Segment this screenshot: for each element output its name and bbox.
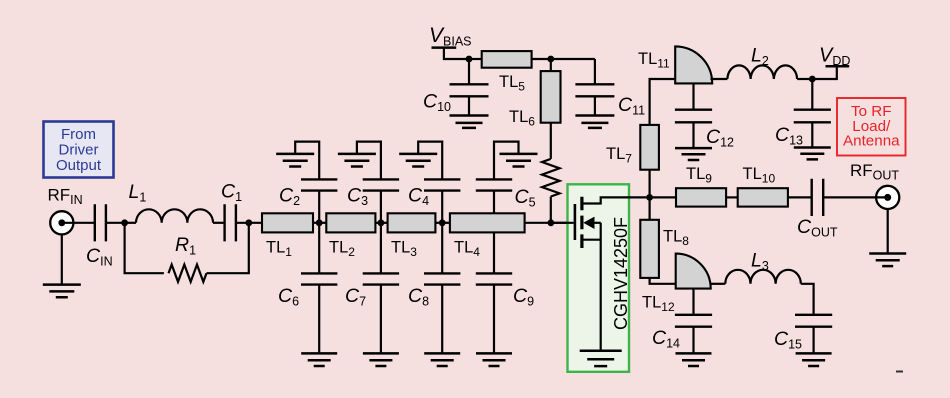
resistor R1 — [169, 265, 207, 282]
transmission line TL4 — [450, 213, 525, 232]
node I (drain node) — [646, 194, 653, 201]
wire C12 to ground — [692, 122, 694, 148]
svg-text:FromDriverOutput: FromDriverOutput — [56, 126, 102, 174]
transmission line TL2 — [326, 213, 375, 232]
ground of Q1 source — [580, 351, 622, 366]
connector RF_IN centre pin — [58, 219, 65, 226]
wire C15 to ground — [812, 327, 814, 354]
package box CGHV14250F — [568, 184, 630, 371]
inductor L3 — [725, 270, 801, 284]
capacitor C3 — [363, 179, 399, 190]
wire drain node to TL9 — [650, 196, 676, 198]
capacitor C2 — [301, 179, 337, 190]
capacitor CIN — [95, 204, 106, 241]
node J (VDD node) — [809, 76, 816, 83]
ground below C14 — [676, 353, 712, 366]
capacitor C15 — [795, 315, 832, 327]
wire node J to VDD — [812, 68, 837, 80]
wire COUT to RFOUT — [823, 196, 888, 198]
wire bias resistor to gate node — [550, 197, 552, 223]
C2 wire — [295, 142, 319, 180]
transmission line TL5 — [482, 51, 532, 68]
svg-text:CGHV14250F: CGHV14250F — [611, 217, 631, 330]
transistor Q1 gate bar — [574, 204, 577, 240]
wire node G to C10 — [468, 59, 470, 84]
wire TL12 to C14 — [692, 289, 694, 315]
wire VBIAS to node G — [444, 48, 469, 59]
wire node to C2 — [318, 191, 320, 223]
ground at RF_IN — [43, 285, 81, 298]
wire C7 to ground — [380, 285, 382, 354]
C4 wire — [418, 142, 442, 180]
ground below C11 — [575, 116, 614, 128]
capacitor C4 — [424, 179, 460, 190]
node B (junction C1 / R1 / TL1) — [245, 219, 252, 226]
stray dash mark — [896, 371, 903, 373]
wire TL4 to gate node — [525, 222, 568, 224]
transmission line TL1 — [262, 213, 313, 232]
ground below C7 — [363, 353, 399, 366]
node A (junction CIN / L1 / R1) — [121, 219, 128, 226]
ground below C10 — [450, 116, 489, 128]
C5 wire — [494, 142, 519, 180]
wire R1 up to node B — [207, 223, 249, 273]
transmission line TL10 — [738, 188, 788, 206]
wire RFOUT to ground — [887, 210, 889, 254]
capacitor C5 — [476, 179, 512, 190]
ground at RFOUT — [869, 254, 906, 267]
wire node to C3 — [380, 191, 382, 223]
transistor Q1 drain lead — [583, 197, 650, 203]
C4 ground — [399, 154, 437, 167]
ground below C6 — [301, 353, 337, 366]
wire to C8 — [441, 223, 443, 274]
ground below C9 — [476, 353, 512, 366]
wire CIN to node A — [106, 222, 125, 224]
wire L3 to C15 — [801, 284, 814, 315]
wire to C11 — [594, 59, 596, 84]
wire TL11 to C12 — [692, 83, 694, 109]
wire TL8 to TL12 — [650, 278, 676, 284]
transmission line TL3 — [388, 213, 436, 232]
wire node G to TL5 — [469, 58, 482, 60]
wire gate node to gate — [551, 222, 574, 224]
wire C10 to ground — [468, 96, 470, 115]
capacitor C1 — [225, 204, 236, 241]
capacitor COUT — [812, 179, 824, 216]
wire node H to C11 — [551, 58, 595, 60]
capacitor C9 — [476, 273, 512, 284]
connector RFOUT centre pin — [884, 194, 891, 201]
note box: To RF Load/Antenna — [837, 98, 906, 156]
wire to C9 — [493, 232, 495, 274]
ground below C8 — [424, 353, 460, 366]
wire TL2 to TL3 — [375, 222, 387, 224]
wire TL6 to bias resistor — [550, 123, 552, 159]
capacitor C13 — [794, 110, 831, 123]
wire node H to TL6 — [550, 59, 552, 71]
ground below C13 — [794, 148, 831, 160]
capacitor C7 — [363, 273, 399, 284]
transmission line TL7 — [640, 125, 659, 170]
wire TL9 to TL10 — [726, 196, 738, 198]
node H (TL5 / TL6 / C11) — [547, 56, 554, 63]
wire TL1 to TL2 — [313, 222, 326, 224]
wire source to ground — [600, 223, 602, 351]
wire TL5 to node H — [532, 58, 551, 60]
wire connector to CIN — [62, 222, 95, 224]
wire TL12 to L3 — [710, 283, 726, 285]
wire node to C4 — [441, 191, 443, 223]
node F (gate node) — [548, 219, 555, 226]
transmission line TL9 — [676, 188, 726, 206]
wire node A down to R1 — [125, 223, 164, 273]
wire C6 to ground — [318, 285, 320, 354]
ground below C12 — [675, 148, 712, 160]
node E (TL3/TL4 junction) — [439, 219, 446, 226]
terminal VDD — [826, 65, 850, 68]
transmission line TL6 — [541, 71, 561, 123]
inductor L1 — [136, 209, 213, 223]
wire TL7 up to TL11 — [650, 79, 676, 125]
node C (TL1/TL2 junction) — [316, 219, 323, 226]
C3 ground — [338, 154, 376, 167]
wire to C6 — [318, 223, 320, 274]
wire C9 to ground — [493, 285, 495, 354]
wire C13 to ground — [811, 122, 813, 147]
capacitor C10 — [450, 84, 489, 96]
wire TL3 to TL4 — [435, 222, 450, 224]
node G (VBIAS / TL5 / C10) — [466, 56, 473, 63]
wire L2 to node J — [797, 78, 812, 80]
wire RF_IN to ground — [61, 234, 63, 284]
wire C8 to ground — [441, 285, 443, 354]
radial stub TL12 — [676, 254, 711, 289]
wire C14 to ground — [692, 327, 694, 354]
terminal VBIAS — [432, 46, 457, 49]
C5 ground — [500, 154, 538, 167]
wire TL11 to L2 — [711, 78, 728, 80]
gate bias resistor — [542, 159, 560, 197]
capacitor C6 — [301, 273, 337, 284]
transmission line TL8 — [640, 220, 659, 278]
wire L1 to C1 — [213, 222, 225, 224]
connector RFOUT — [876, 186, 899, 209]
wire drain node to TL7 — [648, 170, 650, 198]
ground below C15 — [796, 353, 832, 366]
wire TL4 to C5 — [493, 191, 495, 214]
wire C1 to TL1 — [236, 222, 262, 224]
transistor Q1 source lead — [583, 239, 601, 241]
wire node J to C13 — [811, 79, 813, 110]
wire to C7 — [380, 223, 382, 274]
connector RF_IN — [50, 211, 73, 234]
note box: From Driver Output — [44, 122, 114, 178]
wire C11 to ground — [594, 96, 596, 115]
transistor Q1 body lead — [592, 222, 601, 224]
C2 ground — [276, 154, 314, 167]
transistor Q1 channel segments — [580, 197, 583, 248]
capacitor C14 — [675, 315, 712, 327]
capacitor C8 — [424, 273, 460, 284]
inductor L2 — [727, 65, 797, 79]
transistor Q1 body arrow — [583, 217, 594, 229]
capacitor C12 — [675, 110, 712, 123]
capacitor C11 — [575, 84, 614, 96]
wire node A to L1 — [125, 222, 136, 224]
radial stub TL11 — [675, 46, 712, 83]
wire TL10 to COUT — [788, 196, 812, 198]
C3 wire — [357, 142, 381, 180]
node D (TL2/TL3 junction) — [378, 219, 385, 226]
wire drain node to TL8 — [648, 197, 650, 219]
